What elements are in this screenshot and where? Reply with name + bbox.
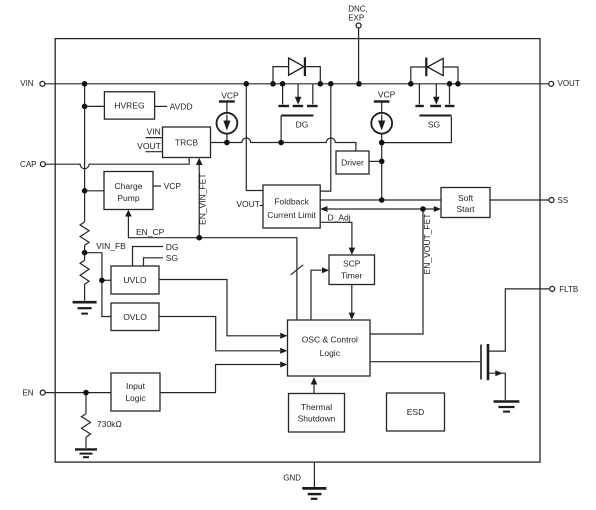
svg-text:Shutdown: Shutdown — [298, 414, 336, 424]
svg-text:Logic: Logic — [125, 393, 146, 403]
svg-text:Charge: Charge — [115, 181, 143, 191]
svg-text:VIN: VIN — [147, 127, 161, 137]
svg-text:VCP: VCP — [221, 90, 239, 100]
svg-text:VIN: VIN — [20, 79, 34, 88]
svg-text:VOUT: VOUT — [236, 199, 260, 209]
svg-text:VCP: VCP — [378, 90, 396, 100]
svg-text:Thermal: Thermal — [301, 402, 332, 412]
svg-text:SG: SG — [166, 253, 178, 263]
svg-text:Foldback: Foldback — [274, 196, 309, 206]
svg-text:AVDD: AVDD — [170, 101, 193, 111]
svg-text:VOUT: VOUT — [137, 141, 161, 151]
svg-text:SCP: SCP — [343, 259, 361, 269]
svg-text:Driver: Driver — [341, 158, 364, 168]
svg-text:Input: Input — [126, 381, 146, 391]
svg-text:FLTB: FLTB — [559, 285, 578, 294]
svg-text:Soft: Soft — [458, 193, 474, 203]
svg-text:SS: SS — [558, 196, 569, 205]
svg-text:Logic: Logic — [320, 348, 341, 358]
svg-text:D_Adj: D_Adj — [328, 212, 351, 222]
svg-text:ESD: ESD — [407, 407, 424, 417]
svg-text:Current Limit: Current Limit — [267, 210, 316, 220]
svg-text:HVREG: HVREG — [114, 101, 144, 111]
svg-text:EXP: EXP — [348, 14, 364, 23]
svg-text:EN_CP: EN_CP — [136, 227, 165, 237]
svg-text:VOUT: VOUT — [558, 79, 580, 88]
svg-text:VCP: VCP — [164, 181, 182, 191]
svg-text:EN_VIN_FET: EN_VIN_FET — [198, 173, 208, 225]
svg-text:VIN_FB: VIN_FB — [96, 241, 126, 251]
svg-text:TRCB: TRCB — [175, 137, 198, 147]
svg-text:OSC & Control: OSC & Control — [302, 335, 358, 345]
svg-text:EN: EN — [22, 388, 33, 397]
svg-text:DNC,: DNC, — [348, 5, 368, 14]
svg-text:EN_VOUT_FET: EN_VOUT_FET — [422, 214, 432, 275]
svg-text:Start: Start — [457, 204, 476, 214]
svg-text:SG: SG — [428, 119, 440, 129]
svg-text:CAP: CAP — [20, 160, 36, 169]
svg-text:UVLO: UVLO — [123, 275, 147, 285]
svg-text:DG: DG — [296, 120, 309, 130]
svg-text:GND: GND — [283, 473, 301, 482]
svg-text:730kΩ: 730kΩ — [97, 419, 122, 429]
svg-text:Timer: Timer — [341, 271, 363, 281]
svg-text:DG: DG — [166, 242, 179, 252]
svg-text:Pump: Pump — [117, 193, 139, 203]
svg-text:OVLO: OVLO — [123, 312, 147, 322]
